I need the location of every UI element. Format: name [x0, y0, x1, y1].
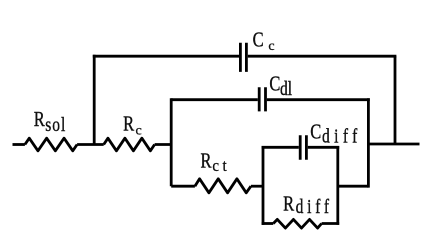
capacitor C_c plates: [240, 43, 246, 72]
capacitor C_diff plates: [300, 135, 306, 160]
wire box left vertical: [262, 146, 265, 225]
wire Cdl left segment: [171, 98, 258, 101]
wire Cdiff right segment: [308, 146, 339, 149]
wire R_sol to node A: [77, 143, 104, 146]
wire box to Cdl-drop connector: [338, 185, 369, 188]
svg-text:ct: ct: [212, 157, 230, 175]
svg-text:dl: dl: [280, 77, 292, 99]
wire Rct left lead: [171, 185, 195, 188]
wire Cdl right segment: [267, 98, 370, 101]
node B vertical wire (Cdl branch down to Rct branch): [170, 98, 173, 186]
node A riser: vertical wire up to Cc branch: [93, 55, 96, 145]
capacitor C_dl plates: [259, 87, 265, 111]
resistor R_sol: [25, 138, 77, 151]
wire Cc top left segment: [93, 55, 239, 58]
wire box right vertical: [336, 146, 339, 225]
wire left terminal: [13, 143, 25, 146]
wire Rct to box left: [251, 185, 263, 188]
svg-text:R: R: [123, 113, 134, 136]
resistor R_ct: [195, 179, 251, 193]
wire Cc top right segment: [248, 55, 397, 58]
resistor R_c: [104, 138, 155, 151]
resistor R_diff: [273, 219, 321, 228]
wire Rdiff left lead: [262, 222, 274, 225]
svg-text:diff: diff: [296, 195, 333, 217]
svg-text:C: C: [310, 121, 321, 144]
wire Cc right drop to main rail: [394, 56, 397, 144]
wire Cdl right drop: [367, 98, 370, 187]
svg-text:c: c: [268, 39, 274, 54]
svg-text:C: C: [269, 73, 280, 96]
wire Rdiff right lead: [322, 222, 340, 225]
svg-text:sol: sol: [45, 113, 66, 135]
wire main rail right + right terminal: [368, 143, 419, 146]
svg-text:C: C: [253, 29, 264, 52]
svg-text:diff: diff: [322, 124, 362, 146]
wire R_c to node B: [155, 143, 172, 146]
svg-text:R: R: [283, 193, 294, 216]
svg-text:R: R: [34, 108, 45, 131]
svg-text:R: R: [201, 150, 212, 173]
wire Cdiff left segment: [262, 146, 299, 149]
svg-text:c: c: [136, 124, 142, 139]
